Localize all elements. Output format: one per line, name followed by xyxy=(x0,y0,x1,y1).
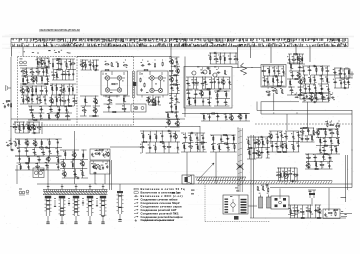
value label xyxy=(216,68,217,71)
value label xyxy=(172,63,174,66)
junction node xyxy=(202,141,205,144)
value label xyxy=(272,67,274,70)
wire dotted link xyxy=(205,221,270,223)
wire drop xyxy=(70,59,72,70)
value label xyxy=(293,207,294,210)
wire drop xyxy=(36,95,38,104)
value label xyxy=(188,134,190,137)
wire rail xyxy=(170,84,180,86)
antenna input parts xyxy=(6,139,16,152)
IF transformer can Z1 xyxy=(101,71,128,95)
capacitor C53 xyxy=(7,103,9,107)
wire drop xyxy=(281,76,283,86)
wire drop xyxy=(261,148,263,159)
value label xyxy=(116,61,118,64)
resistor R81 xyxy=(297,59,302,60)
value label xyxy=(208,89,209,92)
wire rail xyxy=(315,204,321,206)
detector transistors xyxy=(191,67,217,78)
value label xyxy=(67,70,69,73)
junction node xyxy=(38,121,41,124)
value label xyxy=(183,133,185,136)
junction node xyxy=(330,144,333,147)
wire band drop 7 xyxy=(309,47,311,62)
value label xyxy=(19,143,20,146)
transistor VT30 xyxy=(72,152,77,157)
value label xyxy=(266,148,268,151)
wire rail xyxy=(52,94,77,96)
capacitor C41 xyxy=(107,106,111,108)
value label xyxy=(313,153,314,156)
capacitor C5 xyxy=(42,70,44,74)
resistor R59 xyxy=(167,113,168,118)
wire drop xyxy=(63,84,65,95)
wire rail xyxy=(200,113,249,115)
capacitor C155 xyxy=(331,148,333,152)
value label xyxy=(166,111,168,114)
value label xyxy=(153,98,155,101)
capacitor C159 xyxy=(296,173,298,177)
driver parts xyxy=(210,134,237,152)
capacitor C81 xyxy=(272,90,276,92)
value label xyxy=(65,175,67,178)
value label xyxy=(30,86,32,89)
wire rail xyxy=(300,134,304,136)
junction node xyxy=(38,155,41,158)
resistor R152 xyxy=(252,153,257,154)
resistor R191 xyxy=(335,212,336,217)
wire rail xyxy=(32,132,41,134)
switch S1 parts xyxy=(91,149,109,157)
resistor R87 xyxy=(277,85,282,86)
value label xyxy=(225,73,226,76)
wire drop xyxy=(301,205,303,218)
capacitor C119 xyxy=(72,158,76,160)
value label xyxy=(186,79,188,82)
junction node xyxy=(48,146,51,149)
value label xyxy=(290,71,292,74)
meter circuit parts xyxy=(276,168,298,183)
capacitor C109 xyxy=(57,141,59,145)
value label xyxy=(172,99,174,102)
junction node xyxy=(175,74,178,77)
wire drop xyxy=(347,78,349,88)
transistor VT12 xyxy=(150,98,155,103)
value label xyxy=(45,75,47,78)
wire rail xyxy=(277,167,297,169)
value label xyxy=(339,79,341,82)
value label xyxy=(288,170,291,173)
capacitor C6 xyxy=(26,79,28,83)
value label xyxy=(49,105,51,108)
resistor R119 xyxy=(20,165,21,170)
resistor R18 xyxy=(32,88,33,93)
capacitor C112 xyxy=(49,150,51,154)
value label xyxy=(289,62,291,65)
wire rail xyxy=(287,78,304,80)
transistor VT15 xyxy=(169,77,174,82)
junction node xyxy=(30,105,33,108)
value label xyxy=(203,78,205,81)
wire drop xyxy=(216,91,218,99)
value label xyxy=(330,159,331,162)
capacitor C150 xyxy=(297,144,299,148)
value label xyxy=(208,54,210,57)
resistor R102 xyxy=(318,92,323,93)
resistor R156 xyxy=(257,186,258,191)
value label xyxy=(169,102,171,105)
wire drop xyxy=(202,133,204,143)
value label xyxy=(316,89,317,92)
value label xyxy=(72,151,75,154)
resistor R97 xyxy=(304,78,305,83)
value label xyxy=(311,213,313,216)
value label xyxy=(93,155,95,158)
wire drop xyxy=(328,162,330,170)
capacitor C120 xyxy=(76,177,80,179)
wire drop xyxy=(325,129,327,137)
wire rail xyxy=(17,162,63,164)
value label xyxy=(326,134,327,137)
wire rail xyxy=(269,151,299,153)
wire rail xyxy=(305,168,332,170)
value label xyxy=(33,139,35,142)
value label xyxy=(50,96,52,99)
diode VD29 xyxy=(260,152,264,154)
value label xyxy=(309,166,311,169)
capacitor C153 xyxy=(330,139,332,143)
capacitor C146 xyxy=(281,134,283,138)
resistor R145 xyxy=(213,145,214,150)
diode VD22 xyxy=(333,81,337,83)
resistor R180 xyxy=(314,168,319,169)
junction node xyxy=(108,95,111,98)
value label xyxy=(83,164,85,167)
transistor VT42 xyxy=(305,163,310,168)
wire rail xyxy=(62,177,77,179)
value label xyxy=(320,212,322,215)
wire rail xyxy=(17,147,62,149)
junction node xyxy=(343,77,346,80)
capacitor C69 xyxy=(216,115,220,117)
terminal board divider xyxy=(238,195,240,214)
value label xyxy=(292,170,293,173)
junction node xyxy=(331,92,334,95)
wire rail xyxy=(248,147,257,149)
capacitor C11 xyxy=(67,74,71,76)
diode VD35 xyxy=(328,157,332,159)
junction node xyxy=(50,94,53,97)
hatched bus band xyxy=(195,177,332,184)
value label xyxy=(320,161,322,164)
capacitor C36 xyxy=(94,69,98,71)
value label xyxy=(268,153,269,156)
wire drop xyxy=(334,78,336,88)
value label xyxy=(227,78,228,81)
wire drop xyxy=(183,143,185,153)
wire drop xyxy=(52,59,54,70)
resistor R153 xyxy=(248,147,253,148)
wire rail xyxy=(305,153,332,155)
bus wire dashed lower xyxy=(255,123,352,125)
wire drop xyxy=(323,146,325,154)
divider wire pair xyxy=(133,71,137,98)
junction node xyxy=(7,100,10,103)
value label xyxy=(322,146,324,149)
wire drop xyxy=(286,168,288,181)
wire drop xyxy=(22,76,24,84)
wire rail xyxy=(80,115,87,117)
junction node xyxy=(196,132,199,135)
capacitor C54 xyxy=(192,82,196,84)
junction node xyxy=(351,149,354,152)
junction node xyxy=(316,128,319,131)
svg-text:Соединение розеткой АНТ: Соединение розеткой АНТ xyxy=(141,208,177,212)
capacitor C143 xyxy=(260,136,264,138)
value label xyxy=(83,174,85,177)
resistor R26 xyxy=(56,98,57,103)
wire drop xyxy=(155,131,157,142)
value label xyxy=(204,118,205,121)
fuse FU1 xyxy=(288,214,298,216)
junction node xyxy=(297,140,300,143)
wire rail xyxy=(166,119,180,121)
junction node xyxy=(266,75,269,78)
resistor R13 xyxy=(71,63,76,64)
junction node xyxy=(62,158,65,161)
value label xyxy=(69,101,70,104)
junction node xyxy=(175,92,178,95)
value label xyxy=(226,134,228,137)
resistor R183 xyxy=(280,173,281,178)
value label xyxy=(35,162,38,165)
capacitor C85 xyxy=(304,88,308,90)
resistor R167 xyxy=(302,127,307,128)
wire drop xyxy=(297,54,299,64)
junction node xyxy=(168,141,171,144)
resistor R30 xyxy=(29,109,34,110)
wire rail xyxy=(316,145,339,147)
value label xyxy=(296,142,298,145)
wire drop xyxy=(285,142,287,153)
transistor VT29 xyxy=(46,156,51,161)
value label xyxy=(269,93,271,96)
value label xyxy=(321,153,323,156)
junction node xyxy=(89,59,92,62)
wire drop xyxy=(41,139,43,148)
resistor R186 xyxy=(300,211,305,212)
value label xyxy=(26,163,28,166)
wire rail xyxy=(103,111,130,113)
wire rail xyxy=(80,59,88,61)
wire drop xyxy=(311,135,313,142)
value label xyxy=(346,78,348,81)
wire drop xyxy=(292,131,294,142)
value label xyxy=(156,103,158,106)
junction node xyxy=(26,138,29,141)
value label xyxy=(314,93,315,96)
resistor R173 xyxy=(336,147,337,152)
value label xyxy=(195,134,196,137)
value label xyxy=(47,112,49,115)
resistor R75 xyxy=(234,59,239,60)
transistor VT16 xyxy=(166,120,171,125)
resistor R163 xyxy=(300,131,305,132)
wire drop xyxy=(56,95,58,106)
driver stage parts xyxy=(287,63,304,96)
value label xyxy=(284,73,285,76)
transistor VT14 xyxy=(175,68,180,73)
wire rail xyxy=(297,53,305,55)
value label xyxy=(65,112,67,115)
wire drop xyxy=(177,85,179,94)
value label xyxy=(97,163,99,166)
resistor R14 xyxy=(56,73,57,78)
resistor R78 xyxy=(211,113,216,114)
RF module bottom row parts xyxy=(28,106,72,121)
junction node xyxy=(47,57,50,60)
ratio detector diodes Z2 xyxy=(140,71,166,98)
capacitor C164 xyxy=(324,213,326,217)
wire rail xyxy=(20,67,50,69)
value label xyxy=(49,117,50,120)
capacitor C20 xyxy=(44,98,46,102)
wire rail xyxy=(300,127,314,129)
junction node xyxy=(31,85,34,88)
value label xyxy=(312,99,313,102)
wire drop xyxy=(220,135,222,144)
wire band drop 2 xyxy=(170,47,172,57)
resistor R48 xyxy=(144,83,145,88)
wire drop xyxy=(177,66,179,75)
wire rail xyxy=(21,94,29,96)
capacitor C123 xyxy=(103,153,105,157)
wire drop xyxy=(23,122,25,133)
value label xyxy=(59,60,60,63)
capacitor C57 xyxy=(218,81,220,85)
transistor VT40 xyxy=(279,143,284,148)
value label xyxy=(326,94,328,97)
junction node xyxy=(107,103,110,106)
wire drop xyxy=(57,139,59,148)
resistor R56 xyxy=(176,105,177,110)
resistor R161 xyxy=(277,151,282,152)
resistor R44 xyxy=(82,110,87,111)
wire drop xyxy=(72,159,74,168)
speaker box BA1 xyxy=(182,175,194,184)
value label xyxy=(278,81,279,84)
transistor VT13 xyxy=(169,59,174,64)
value label xyxy=(326,85,327,88)
output box X1 xyxy=(340,69,350,78)
capacitor C140 xyxy=(226,147,230,149)
capacitor C46 xyxy=(170,97,174,99)
value label xyxy=(56,138,58,141)
value label xyxy=(211,134,212,137)
value label xyxy=(198,139,200,142)
capacitor C49 xyxy=(173,65,177,67)
junction node xyxy=(266,136,269,139)
wire drop xyxy=(37,68,39,76)
wire drop xyxy=(231,114,233,122)
value label xyxy=(162,142,164,145)
wire rail xyxy=(210,151,237,153)
junction node xyxy=(73,94,76,97)
wire drop xyxy=(72,59,74,70)
wire drop xyxy=(177,142,179,153)
power input parts xyxy=(287,53,305,64)
resistor R160 xyxy=(293,145,294,150)
wire rail xyxy=(300,141,315,143)
wire drop xyxy=(271,142,273,153)
terminal board contacts xyxy=(225,188,247,220)
value label xyxy=(26,86,28,89)
junction node xyxy=(176,141,179,144)
junction node xyxy=(290,86,293,89)
wire drop xyxy=(309,75,311,84)
capacitor C16 xyxy=(45,89,47,93)
transistor VT11 xyxy=(146,98,151,103)
junction node xyxy=(335,144,338,147)
resistor R80 xyxy=(297,56,298,61)
value label xyxy=(307,66,309,69)
diode VD13 xyxy=(224,101,228,103)
value label xyxy=(28,100,30,103)
wire out right xyxy=(340,213,352,215)
wire rail xyxy=(28,105,59,107)
resistor R171 xyxy=(320,138,321,143)
resistor R85 xyxy=(269,69,270,74)
capacitor C72 xyxy=(273,69,275,73)
capacitor C131 xyxy=(162,146,166,148)
capacitor C10 xyxy=(70,63,72,67)
value label xyxy=(47,72,48,75)
value label xyxy=(325,76,327,79)
value label xyxy=(105,162,108,165)
value label xyxy=(200,69,202,72)
junction node xyxy=(71,158,74,161)
value label xyxy=(83,61,86,64)
wire drop xyxy=(40,106,42,113)
wire rail xyxy=(60,158,88,160)
junction node xyxy=(68,68,71,71)
resistor R27 xyxy=(62,100,67,101)
wire drop xyxy=(301,135,303,142)
junction node xyxy=(194,97,197,100)
wire rail xyxy=(345,67,348,69)
wire drop xyxy=(152,97,154,105)
value label xyxy=(100,168,101,171)
wire rail xyxy=(15,138,62,140)
wire drop xyxy=(340,68,342,78)
wire drop xyxy=(58,106,60,113)
value label xyxy=(35,153,37,156)
junction node xyxy=(330,120,333,123)
voltage converter box xyxy=(323,209,340,219)
value label xyxy=(174,112,176,115)
value label xyxy=(342,78,344,81)
value label xyxy=(182,142,184,145)
IF decoupling parts xyxy=(80,96,100,117)
value label xyxy=(38,73,39,76)
junction node xyxy=(22,121,25,124)
push switch box S2 xyxy=(90,161,110,174)
value label xyxy=(303,213,305,216)
value label xyxy=(339,142,340,145)
capacitor C3 xyxy=(11,149,15,151)
capacitor C122 xyxy=(98,152,100,156)
wire drop xyxy=(42,68,44,76)
